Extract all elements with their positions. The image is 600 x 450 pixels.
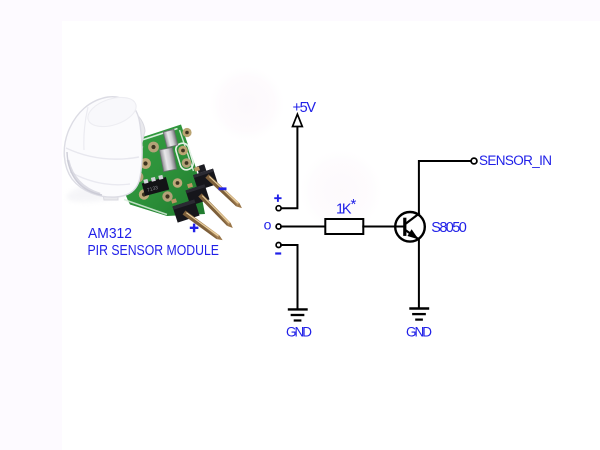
label plus near pin3 (190, 224, 199, 233)
dome top facet (84, 92, 140, 132)
svg-text:S8050: S8050 (431, 220, 467, 236)
SMD capacitor C2 (silver, small top) (163, 129, 178, 147)
faint pink blob upper (207, 64, 287, 144)
terminal + circle (276, 206, 281, 211)
header block 1 (191, 162, 218, 190)
dome bottom shading (68, 160, 100, 194)
power +5V arrow symbol (293, 114, 303, 126)
transistor collector diagonal (406, 214, 419, 224)
pin stub 2 (187, 183, 193, 188)
pad E (right of IC) (162, 191, 172, 201)
header pin 2 (198, 193, 234, 230)
wire emitter down to ground (418, 240, 420, 308)
svg-text:GND: GND (406, 325, 432, 340)
IC U1 (black, 3 pins) (141, 174, 169, 196)
header block 3 (172, 199, 199, 222)
terminal SENSOR_IN circle (471, 158, 477, 164)
PCB silkscreen border left (122, 143, 136, 194)
pin stub 1 (194, 166, 200, 171)
svg-text:AM312: AM312 (88, 225, 132, 242)
dome facet band (66, 148, 139, 159)
terminal o circle (276, 224, 281, 229)
terminal - circle (276, 243, 281, 248)
label minus near pin1 (219, 187, 227, 190)
header block 2 (186, 184, 210, 205)
silkscreen oval around right pads (174, 142, 194, 172)
header pin 1 (205, 174, 243, 210)
svg-text:1K: 1K (336, 201, 352, 217)
label - at terminal (275, 252, 281, 254)
svg-text:*: * (351, 196, 357, 213)
resistor R1 1K (325, 219, 363, 234)
dome lens (64, 97, 142, 197)
transistor base bar (403, 218, 406, 236)
body lower gray shading (119, 146, 142, 195)
faint pink blob lower (297, 147, 385, 235)
PCB silkscreen border right (180, 130, 194, 171)
pin stub 3 (171, 198, 177, 203)
pad B (140, 158, 151, 169)
PIR module photo (64, 92, 243, 259)
label + at terminal (275, 196, 280, 201)
wire collector up and right to SENSOR_IN (419, 161, 471, 214)
PCB silkscreen border top (141, 129, 178, 141)
ground symbol left (289, 309, 307, 320)
wire resistor to transistor base (363, 226, 403, 228)
wire - terminal down to ground (281, 245, 298, 309)
svg-text:PIR SENSOR MODULE: PIR SENSOR MODULE (88, 242, 220, 259)
dome facet band lower (70, 172, 130, 185)
dome facet line vertical (84, 107, 88, 150)
green PCB (122, 125, 205, 217)
svg-text:+5V: +5V (293, 100, 317, 116)
pad C (133, 172, 144, 183)
transistor Q1 circle (395, 212, 425, 242)
dome shadow (65, 173, 151, 207)
svg-text:o: o (264, 216, 272, 232)
pad A (top) (148, 142, 159, 153)
wire +5V down to + terminal corner (281, 128, 297, 209)
svg-text:SENSOR_IN: SENSOR_IN (479, 153, 552, 168)
transistor emitter diagonal (406, 231, 419, 240)
SMD capacitor C1 (silver, vertical) (160, 147, 177, 171)
ground symbol right (411, 309, 429, 320)
dome bottom rim (67, 152, 102, 195)
header pin 3 (183, 211, 224, 243)
pad H (top right corner) (182, 128, 191, 137)
PCB silkscreen border bottom (124, 200, 167, 215)
wire o terminal to resistor (281, 226, 325, 228)
pad G (oval bottom) (182, 158, 192, 168)
transistor emitter arrow (407, 229, 418, 239)
pad D (below IC) (139, 189, 149, 199)
pad F (oval top) (178, 146, 188, 156)
svg-text:GND: GND (286, 325, 312, 340)
white module body (92, 107, 145, 200)
pad I (right of IC lower) (173, 178, 183, 188)
